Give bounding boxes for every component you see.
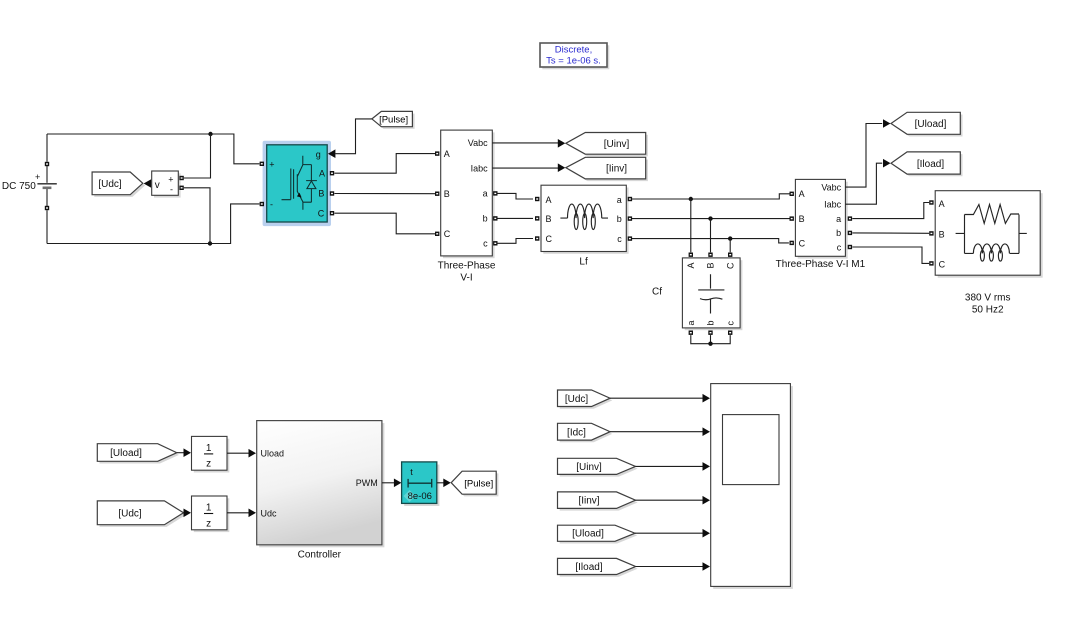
arrowhead unit delay 1 bbox=[184, 448, 192, 457]
rate transition block t 8e-06 (cyan) bbox=[402, 462, 440, 506]
svg-text:c: c bbox=[837, 242, 842, 252]
svg-text:g: g bbox=[316, 150, 321, 160]
svg-text:380 V rms: 380 V rms bbox=[965, 292, 1011, 303]
battery DC 750 bbox=[2, 134, 57, 244]
svg-text:c: c bbox=[617, 234, 622, 244]
capacitor bank Cf bbox=[652, 253, 742, 335]
svg-text:[Iload]: [Iload] bbox=[575, 562, 602, 573]
goto tag [Uinv] bbox=[566, 133, 648, 157]
arrowhead [Uload] bbox=[883, 119, 891, 128]
voltage measurement U1 "v" bbox=[152, 171, 184, 198]
wire bottom DC rail bbox=[47, 204, 259, 246]
svg-text:1: 1 bbox=[206, 503, 212, 514]
svg-text:Controller: Controller bbox=[298, 549, 342, 560]
wire 1/z to Controller Udc bbox=[227, 512, 249, 514]
svg-text:V-I: V-I bbox=[460, 273, 472, 284]
arrowhead rate block bbox=[394, 479, 402, 488]
wire [Udc] to scope bbox=[610, 397, 702, 399]
svg-text:8e-06: 8e-06 bbox=[408, 491, 432, 502]
svg-text:b: b bbox=[483, 214, 488, 224]
svg-text:[Uinv]: [Uinv] bbox=[604, 139, 630, 150]
from tag [Udc] (scope) bbox=[558, 390, 613, 409]
arrowhead scope in6 bbox=[703, 562, 711, 571]
svg-text:C: C bbox=[318, 208, 325, 218]
three-phase V-I measurement block bbox=[435, 130, 497, 284]
svg-text:Lf: Lf bbox=[579, 256, 588, 267]
svg-text:Uload: Uload bbox=[261, 449, 285, 459]
svg-text:Discrete,: Discrete, bbox=[555, 45, 592, 56]
wire Cf neutral short bbox=[691, 335, 730, 346]
svg-text:a: a bbox=[836, 214, 841, 224]
svg-text:A: A bbox=[939, 199, 945, 209]
wire top DC rail bbox=[47, 132, 259, 164]
svg-text:[Iload]: [Iload] bbox=[917, 159, 944, 170]
wire IGBT B to V-I B bbox=[334, 193, 435, 195]
wire V-I a to Lf A bbox=[498, 193, 534, 199]
from tag [Uinv] (scope) bbox=[558, 458, 638, 476]
from tag [Idc] (scope) bbox=[558, 423, 613, 442]
svg-text:B: B bbox=[318, 188, 324, 198]
svg-text:[Udc]: [Udc] bbox=[565, 394, 589, 405]
wire [Udc] to unit delay bbox=[184, 512, 185, 514]
svg-text:1: 1 bbox=[206, 443, 212, 454]
arrowhead scope in2 bbox=[703, 427, 711, 436]
wire V-I b to Lf B bbox=[498, 217, 534, 219]
wire V-I c to Lf C bbox=[498, 239, 534, 244]
goto tag [Pulse] bbox=[451, 471, 498, 496]
scope block bbox=[711, 384, 793, 589]
svg-text:c: c bbox=[725, 321, 735, 326]
svg-text:Udc: Udc bbox=[261, 509, 278, 519]
svg-text:C: C bbox=[799, 238, 806, 248]
svg-text:B: B bbox=[706, 263, 716, 269]
goto tag [Iload] bbox=[891, 152, 963, 176]
wire junction C down to Cf bbox=[729, 239, 731, 253]
from tag [Pulse] (flipped) bbox=[372, 111, 415, 128]
goto tag [Udc] (flipped) bbox=[92, 172, 145, 197]
svg-text:Three-Phase: Three-Phase bbox=[438, 261, 496, 272]
svg-text:Iabc: Iabc bbox=[471, 164, 489, 174]
arrowhead scope in5 bbox=[703, 529, 711, 538]
arrowhead [Uinv] bbox=[558, 139, 566, 148]
arrowhead unit delay 2 bbox=[184, 509, 192, 518]
svg-text:a: a bbox=[686, 320, 696, 325]
from tag [Iinv] (scope) bbox=[558, 492, 638, 511]
svg-text:Vabc: Vabc bbox=[821, 183, 841, 193]
svg-text:[Uload]: [Uload] bbox=[110, 448, 142, 459]
svg-text:B: B bbox=[799, 214, 805, 224]
svg-text:B: B bbox=[939, 230, 945, 240]
wire Lf b to M1 B bbox=[632, 216, 792, 220]
wire [Iload] to scope bbox=[636, 566, 703, 568]
wire [Uinv] to scope bbox=[636, 465, 703, 467]
svg-text:A: A bbox=[799, 189, 805, 199]
svg-text:[Udc]: [Udc] bbox=[98, 179, 122, 190]
svg-text:C: C bbox=[725, 262, 735, 269]
svg-text:+: + bbox=[269, 159, 274, 169]
svg-text:v: v bbox=[155, 180, 160, 191]
powergui block Discrete Ts=1e-06 bbox=[540, 43, 609, 69]
arrowhead Controller Uload bbox=[249, 449, 257, 458]
svg-text:Iabc: Iabc bbox=[824, 200, 842, 210]
svg-text:C: C bbox=[444, 229, 451, 239]
arrowhead [Pulse] goto bbox=[443, 479, 451, 488]
wire v+ to top rail bbox=[184, 134, 211, 178]
svg-text:b: b bbox=[836, 228, 841, 238]
arrowhead scope in1 bbox=[703, 394, 711, 403]
svg-text:+: + bbox=[168, 174, 173, 184]
wire rate block to [Pulse] bbox=[437, 482, 444, 484]
svg-text:b: b bbox=[706, 320, 716, 325]
svg-text:a: a bbox=[483, 189, 488, 199]
wire [Uload] to unit delay bbox=[177, 452, 184, 454]
svg-text:[Udc]: [Udc] bbox=[118, 508, 142, 519]
svg-text:a: a bbox=[617, 195, 622, 205]
IGBT inverter block (cyan) bbox=[260, 141, 335, 226]
svg-text:50 Hz2: 50 Hz2 bbox=[972, 304, 1004, 315]
svg-text:[Iinv]: [Iinv] bbox=[606, 164, 627, 175]
RL load block 380 V rms 50 Hz2 bbox=[929, 191, 1042, 316]
wire M1 b to load B bbox=[852, 232, 929, 234]
wire 1/z to Controller Uload bbox=[227, 452, 249, 454]
svg-text:b: b bbox=[617, 214, 622, 224]
svg-text:Ts = 1e-06 s.: Ts = 1e-06 s. bbox=[546, 56, 601, 67]
svg-text:A: A bbox=[444, 149, 450, 159]
svg-text:B: B bbox=[546, 214, 552, 224]
wire IGBT A to V-I A bbox=[334, 154, 435, 174]
wire [Pulse] to g bbox=[335, 119, 372, 154]
inductor block Lf bbox=[535, 185, 632, 267]
svg-text:[Iinv]: [Iinv] bbox=[578, 496, 599, 507]
wire [Iinv] to scope bbox=[636, 499, 703, 501]
wire M1 Iabc to [Iload] bbox=[845, 163, 882, 204]
wire [Uload] to scope bbox=[635, 532, 703, 534]
wire IGBT C to V-I C bbox=[334, 213, 435, 234]
wire M1 Vabc to [Uload] bbox=[845, 124, 882, 188]
from tag [Uload] (bottom) bbox=[97, 444, 179, 464]
three-phase V-I measurement M1 bbox=[776, 179, 866, 269]
svg-text:z: z bbox=[206, 518, 211, 529]
wire Iabc to [Iinv] bbox=[492, 167, 558, 169]
arrowhead into [Udc] bbox=[144, 179, 152, 188]
svg-text:Cf: Cf bbox=[652, 287, 662, 298]
svg-text:z: z bbox=[206, 459, 211, 470]
wire junction A down to Cf bbox=[690, 199, 692, 252]
svg-text:c: c bbox=[483, 239, 488, 249]
wire Vabc to [Uinv] bbox=[492, 142, 558, 144]
svg-text:DC 750: DC 750 bbox=[2, 181, 36, 192]
arrowhead scope in3 bbox=[703, 462, 711, 471]
arrowhead [Iload] bbox=[883, 159, 891, 168]
from tag [Uload] (scope) bbox=[558, 525, 638, 543]
goto tag [Uload] bbox=[891, 112, 963, 136]
svg-text:Vabc: Vabc bbox=[468, 138, 488, 148]
svg-text:[Idc]: [Idc] bbox=[567, 427, 586, 438]
wire [Idc] to scope bbox=[610, 431, 702, 433]
arrowhead into IGBT g port bbox=[328, 149, 336, 158]
arrowhead Controller Udc bbox=[249, 509, 257, 518]
from tag [Udc] (bottom) bbox=[97, 501, 185, 527]
wire PWM to rate block bbox=[382, 482, 394, 484]
svg-text:C: C bbox=[939, 260, 946, 270]
wire Lf c to M1 C bbox=[632, 236, 789, 242]
from tag [Iload] (scope) bbox=[558, 558, 638, 576]
subsystem Controller bbox=[257, 421, 385, 561]
svg-text:A: A bbox=[546, 195, 552, 205]
svg-text:PWM: PWM bbox=[356, 478, 378, 488]
unit delay 1/z (2) bbox=[192, 496, 230, 532]
wire M1 a to load A bbox=[852, 203, 929, 219]
svg-text:[Uload]: [Uload] bbox=[572, 529, 604, 540]
wire junction B down to Cf bbox=[710, 219, 712, 253]
svg-text:[Pulse]: [Pulse] bbox=[464, 479, 493, 490]
svg-text:A: A bbox=[319, 168, 325, 178]
goto tag [Iinv] bbox=[566, 157, 648, 181]
svg-text:B: B bbox=[444, 189, 450, 199]
svg-text:Three-Phase V-I M1: Three-Phase V-I M1 bbox=[776, 259, 866, 270]
arrowhead [Iinv] bbox=[558, 163, 566, 172]
wire v- to bottom rail bbox=[184, 188, 210, 244]
svg-text:A: A bbox=[686, 263, 696, 269]
svg-text:[Pulse]: [Pulse] bbox=[379, 115, 408, 126]
arrowhead scope in4 bbox=[703, 496, 711, 505]
svg-text:-: - bbox=[270, 199, 273, 209]
unit delay 1/z (1) bbox=[192, 436, 230, 472]
svg-text:[Uload]: [Uload] bbox=[915, 119, 947, 130]
wire M1 c to load C bbox=[852, 247, 929, 263]
svg-text:-: - bbox=[170, 184, 173, 194]
svg-text:C: C bbox=[546, 234, 553, 244]
svg-text:[Uinv]: [Uinv] bbox=[576, 462, 602, 473]
wire Lf a to M1 A bbox=[632, 194, 792, 201]
